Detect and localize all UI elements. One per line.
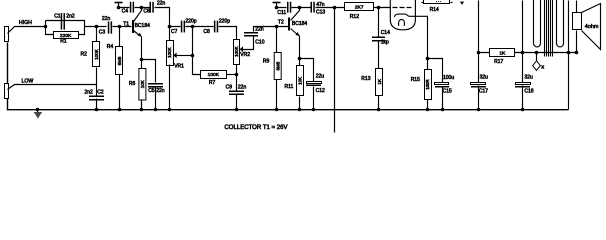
node B+ junction bbox=[333, 6, 337, 10]
svg-text:R6: R6 bbox=[129, 81, 136, 87]
wire C7-C8 bbox=[170, 27, 237, 40]
wire R15 column bbox=[427, 59, 429, 110]
wire speaker lead bbox=[576, 31, 578, 53]
potentiometer VR2 bbox=[234, 40, 240, 65]
svg-text:R7: R7 bbox=[209, 80, 216, 86]
svg-text:VR2: VR2 bbox=[240, 52, 250, 58]
svg-text:R14: R14 bbox=[430, 7, 439, 13]
svg-text:22n: 22n bbox=[102, 16, 111, 22]
wiper VR2 bbox=[240, 46, 243, 52]
svg-text:22u: 22u bbox=[316, 73, 325, 79]
wire R7 to C9 node bbox=[227, 74, 237, 76]
capacitor C2 bbox=[89, 96, 104, 98]
node wiper column bbox=[191, 25, 195, 29]
node R9 junction bbox=[275, 25, 279, 29]
capacitor C4 bbox=[130, 2, 132, 13]
valve grid dashes bbox=[393, 7, 412, 9]
supply stub 1 bbox=[115, 2, 123, 4]
svg-text:COLLECTOR T1 = 26V: COLLECTOR T1 = 26V bbox=[224, 125, 287, 131]
svg-text:T2: T2 bbox=[278, 20, 284, 26]
capacitor C11 bbox=[287, 2, 289, 13]
wire R1/C1 loop bbox=[46, 21, 85, 35]
svg-text:22n: 22n bbox=[157, 1, 166, 7]
svg-text:C17: C17 bbox=[479, 88, 488, 94]
node input junction bbox=[44, 25, 48, 29]
svg-text:R4: R4 bbox=[107, 44, 114, 50]
capacitor C14 bbox=[372, 37, 385, 39]
potentiometer VR1 bbox=[167, 41, 174, 66]
svg-text:T1: T1 bbox=[123, 22, 129, 28]
svg-text:100K: 100K bbox=[234, 46, 239, 57]
wire output bus bbox=[479, 52, 577, 54]
wire C17 drop line bbox=[478, 1, 480, 110]
svg-text:47n: 47n bbox=[316, 2, 325, 8]
capacitor C12 bbox=[307, 82, 322, 84]
wire C3 to T1 base bbox=[113, 26, 132, 28]
wire C10 to T2 base bbox=[254, 27, 289, 32]
wire B+ line down bbox=[334, 8, 336, 133]
transformer core bbox=[545, 0, 553, 57]
node cathode junction bbox=[426, 57, 430, 61]
resistor R6 bbox=[139, 69, 146, 101]
svg-text:220p: 220p bbox=[185, 18, 196, 24]
wire loop to C3 bbox=[85, 26, 107, 28]
capacitor C8 bbox=[214, 21, 216, 33]
ground rail bbox=[8, 43, 569, 110]
wire T1 emitter column bbox=[141, 37, 143, 110]
svg-text:1kp: 1kp bbox=[381, 39, 389, 45]
valve heater bbox=[399, 19, 405, 25]
svg-text:C10: C10 bbox=[255, 40, 264, 46]
svg-text:R2: R2 bbox=[81, 51, 88, 57]
node C14 junction bbox=[377, 6, 381, 10]
ground bbox=[36, 108, 40, 112]
transistor T1 bbox=[132, 20, 134, 33]
svg-text:R17: R17 bbox=[494, 59, 503, 65]
capacitor C9 bbox=[229, 91, 244, 93]
valve cathode bbox=[394, 14, 427, 59]
resistor R11 bbox=[297, 66, 304, 96]
resistor R14 bbox=[424, 0, 450, 4]
svg-text:100K: 100K bbox=[208, 72, 220, 78]
svg-text:22n: 22n bbox=[238, 85, 247, 91]
capacitor C15 bbox=[428, 59, 443, 110]
capacitor C7 bbox=[181, 21, 183, 33]
svg-text:HIGH: HIGH bbox=[19, 20, 32, 26]
svg-text:6M8: 6M8 bbox=[117, 56, 122, 65]
wire HIGH input bbox=[8, 27, 46, 34]
svg-text:100u: 100u bbox=[443, 75, 454, 81]
svg-text:100R: 100R bbox=[425, 79, 430, 89]
svg-text:4ohm: 4ohm bbox=[585, 24, 599, 30]
svg-text:220p: 220p bbox=[219, 18, 230, 24]
wire top rail 1 bbox=[119, 8, 170, 41]
wire R14 leads bbox=[422, 2, 453, 4]
svg-text:C5: C5 bbox=[148, 88, 155, 94]
svg-text:2n2: 2n2 bbox=[66, 14, 75, 20]
capacitor C5 bbox=[148, 83, 163, 85]
resistor R12 bbox=[345, 3, 374, 11]
transistor T2 bbox=[288, 18, 290, 31]
svg-text:C14: C14 bbox=[381, 30, 390, 36]
resistor R2 bbox=[93, 42, 100, 67]
svg-text:10K: 10K bbox=[140, 80, 145, 88]
speaker LS bbox=[576, 1, 578, 13]
svg-text:C12: C12 bbox=[316, 88, 325, 94]
svg-text:1K: 1K bbox=[499, 50, 506, 56]
resistor R9 bbox=[274, 53, 281, 80]
svg-text:BC184: BC184 bbox=[135, 23, 151, 29]
svg-text:2n2: 2n2 bbox=[85, 90, 94, 96]
svg-text:C8: C8 bbox=[203, 29, 210, 35]
svg-text:C2: C2 bbox=[97, 90, 104, 96]
svg-text:R9: R9 bbox=[263, 58, 270, 64]
svg-text:100K: 100K bbox=[94, 49, 99, 60]
svg-text:R13: R13 bbox=[361, 76, 370, 82]
transformer T1 primary line bbox=[522, 1, 524, 53]
resistor R13 bbox=[376, 69, 383, 96]
resistor R4 bbox=[116, 47, 123, 75]
svg-text:VR1: VR1 bbox=[174, 64, 184, 70]
transformer winding loop 2 bbox=[557, 0, 564, 47]
input jack LOW bbox=[5, 84, 9, 99]
svg-text:1K: 1K bbox=[377, 79, 382, 85]
input jack HIGH bbox=[5, 27, 9, 42]
wire C14/R13 column bbox=[378, 8, 380, 110]
transformer secondary line / ground riser bbox=[568, 1, 570, 110]
svg-text:C11: C11 bbox=[277, 10, 286, 16]
svg-text:220K: 220K bbox=[60, 33, 72, 39]
resistor R17 bbox=[490, 49, 515, 57]
svg-text:100K: 100K bbox=[167, 47, 172, 58]
node collector2 bbox=[298, 6, 302, 10]
capacitor C10 bbox=[244, 32, 258, 34]
svg-text:2K7: 2K7 bbox=[355, 5, 364, 11]
resistor R1 bbox=[54, 32, 79, 39]
svg-text:LOW: LOW bbox=[22, 78, 34, 84]
capacitor C18 bbox=[521, 51, 525, 55]
svg-text:C13: C13 bbox=[316, 9, 325, 15]
svg-text:22n: 22n bbox=[156, 88, 165, 94]
svg-text:C15: C15 bbox=[443, 88, 452, 94]
node R4 junction bbox=[118, 25, 122, 29]
node base1 junction bbox=[95, 25, 99, 29]
capacitor C6 bbox=[150, 2, 152, 13]
capacitor C1 bbox=[61, 13, 63, 30]
wire R4 column bbox=[119, 27, 121, 110]
svg-text:R11: R11 bbox=[285, 84, 294, 90]
node HT arrow bbox=[460, 2, 464, 5]
svg-text:C1: C1 bbox=[54, 14, 61, 20]
svg-text:R12: R12 bbox=[350, 14, 359, 20]
svg-text:32u: 32u bbox=[524, 75, 533, 81]
transformer winding loop 1 bbox=[534, 0, 541, 47]
wire top rail 2 bbox=[277, 7, 391, 9]
svg-text:BC184: BC184 bbox=[292, 21, 308, 27]
wire T2 emitter column bbox=[299, 36, 301, 110]
wire R2 column bbox=[96, 27, 98, 110]
svg-text:C18: C18 bbox=[524, 88, 533, 94]
svg-text:6M8: 6M8 bbox=[275, 61, 280, 70]
svg-text:22n: 22n bbox=[255, 27, 264, 33]
node collector1 bbox=[140, 6, 144, 10]
svg-text:10K: 10K bbox=[298, 77, 303, 85]
svg-text:C9: C9 bbox=[226, 85, 233, 91]
resistor R15 bbox=[425, 70, 432, 100]
resistor R7 bbox=[201, 71, 227, 79]
svg-text:R15: R15 bbox=[411, 77, 420, 83]
capacitor C17 bbox=[471, 83, 486, 85]
capacitor C3 bbox=[108, 21, 110, 33]
wire wiper column bbox=[193, 27, 201, 75]
supply stub 2 bbox=[273, 2, 281, 4]
wire LOW input bbox=[8, 85, 97, 90]
node C7 junction bbox=[168, 25, 172, 29]
svg-text:R1: R1 bbox=[60, 39, 67, 45]
capacitor C13 bbox=[311, 2, 313, 13]
svg-text:C7: C7 bbox=[171, 29, 178, 35]
wire emitter to C5 bbox=[142, 60, 156, 110]
svg-text:C6: C6 bbox=[143, 8, 150, 14]
valve V1 envelope bbox=[390, 0, 415, 30]
svg-text:C4: C4 bbox=[122, 8, 129, 14]
wiper VR1 bbox=[173, 53, 176, 59]
svg-text:32u: 32u bbox=[480, 75, 489, 81]
wire emitter to C12 bbox=[300, 59, 314, 110]
svg-text:x: x bbox=[541, 65, 544, 71]
node X tap bbox=[535, 51, 539, 55]
wire R9 column bbox=[276, 27, 278, 110]
svg-text:C3: C3 bbox=[99, 29, 106, 35]
